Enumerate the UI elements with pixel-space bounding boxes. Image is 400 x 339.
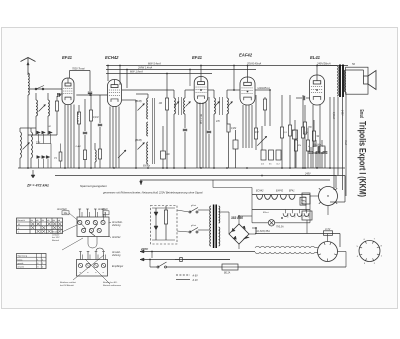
V1 top cap wire: [69, 71, 71, 79]
svg-text:gKast: gKast: [191, 224, 197, 227]
svg-text:heiss: heiss: [18, 259, 23, 261]
IF II trimmer left: [215, 102, 220, 107]
tube V3 EF41: [194, 77, 208, 104]
junction dots: [107, 65, 109, 67]
IF I trimmer left: [174, 102, 179, 107]
svg-text:Umschalt-: Umschalt-: [112, 221, 123, 224]
coupling caps row box2: [269, 150, 274, 160]
IF II top wires: [208, 89, 214, 91]
svg-text:Bereich: Bereich: [18, 219, 26, 222]
pinout socket circle: [359, 241, 380, 262]
V5 bypass box: [293, 130, 298, 139]
IF II core: [219, 97, 221, 115]
legend dashed 6V: [176, 274, 190, 276]
selector diode 1: [154, 212, 158, 216]
screen bypass wire: [84, 99, 86, 131]
svg-text:EF41: EF41: [192, 55, 203, 60]
mains line L: [140, 251, 255, 253]
svg-text:EF41: EF41: [289, 190, 295, 193]
svg-text:U 3V: U 3V: [325, 229, 331, 231]
speaker cable wavy: [255, 247, 315, 248]
svg-text:drehung: drehung: [112, 255, 121, 257]
V1 pin wires: [64, 105, 66, 169]
oscillator core: [151, 98, 153, 164]
V3 screen cap: [208, 97, 210, 130]
svg-text:6Rast: 6Rast: [263, 211, 269, 214]
lamp wires: [252, 222, 268, 224]
svg-text:6,3mA: 6,3mA: [332, 112, 335, 119]
AVC return wire: [99, 95, 101, 123]
6V supply line: [255, 233, 340, 235]
svg-text:220V: 220V: [140, 247, 149, 251]
oscillator trimmer C8: [138, 143, 145, 150]
coupling caps row box1: [261, 150, 266, 160]
IF II feed from rail: [233, 66, 235, 91]
svg-text:≙ 6V: ≙ 6V: [192, 273, 198, 277]
mains transformer core: [213, 205, 215, 249]
rectifier can circle: [319, 187, 338, 206]
chassis bus 3: [140, 179, 330, 181]
svg-text:Unichter: Unichter: [112, 236, 121, 239]
coupling caps row box3: [276, 150, 281, 160]
detector cap: [233, 140, 238, 149]
strip1 body: [77, 217, 109, 237]
svg-text:1M: 1M: [48, 126, 51, 128]
speaker wires: [346, 69, 364, 71]
speaker magnet: [364, 76, 369, 84]
IF transformer I left coil: [122, 89, 174, 91]
grid resistor R3 0,1M: [90, 95, 92, 110]
6V line bend: [339, 234, 341, 248]
AF resistor cluster r4: [302, 95, 304, 127]
switch K1: [189, 211, 191, 213]
switch link wire: [36, 143, 51, 145]
filter electrolytic 1: [310, 147, 312, 151]
IF II trimmer right: [228, 102, 233, 107]
heater frame wires: [251, 195, 253, 223]
filter bottom wire: [28, 134, 57, 136]
screen rail: [106, 69, 256, 71]
selector coil: [164, 210, 167, 224]
right frame wire: [344, 176, 346, 203]
svg-text:MW 5,4mA: MW 5,4mA: [148, 62, 161, 66]
svg-text:0,2M: 0,2M: [231, 128, 236, 130]
svg-text:B0,2A: B0,2A: [224, 272, 231, 275]
IF I core: [178, 97, 180, 115]
svg-text:gKast: gKast: [191, 204, 197, 207]
input filter top wire: [28, 88, 62, 90]
strip2 pins: [80, 252, 82, 260]
AF resistor cluster r3: [294, 140, 297, 151]
padder cap 10n: [162, 126, 164, 151]
table1 x marks: [31, 222, 34, 225]
svg-text:353 B60: 353 B60: [231, 216, 243, 220]
V4 side resistor: [264, 97, 266, 99]
antenna down wire: [27, 95, 29, 168]
second filter coil L3: [19, 128, 21, 132]
V5 cathode resistor: [304, 105, 306, 122]
IF I trimmer right: [186, 102, 191, 107]
selector diode 2: [154, 226, 158, 230]
right drop wire e: [345, 92, 347, 196]
screen feed wire: [189, 70, 191, 87]
mains switch: [157, 266, 159, 268]
tuning capacitor C9: [118, 150, 126, 158]
entbrummer: [180, 258, 183, 262]
AF resistor cluster r5: [306, 140, 309, 151]
V2 rail drops: [107, 66, 109, 82]
electrolytic wires: [315, 153, 317, 168]
svg-text:Spannung: Spannung: [18, 256, 28, 258]
svg-text:≈220/28mA: ≈220/28mA: [257, 87, 270, 90]
svg-text:0,1µ: 0,1µ: [36, 141, 41, 143]
svg-text:245V: 245V: [340, 109, 343, 116]
switch K2: [189, 231, 191, 233]
volume pot: [261, 126, 263, 150]
heater cap box 50n: [300, 197, 306, 205]
svg-text:0,4M: 0,4M: [76, 145, 81, 148]
dropper resistor: [312, 131, 315, 141]
svg-text:EAF42: EAF42: [276, 190, 284, 193]
speaker circle wires: [315, 247, 318, 249]
svg-text:Brücke bei 6V-: Brücke bei 6V-: [103, 282, 118, 284]
svg-text:70V/0,45mA: 70V/0,45mA: [247, 62, 262, 66]
svg-text:7000 Tonat: 7000 Tonat: [72, 68, 85, 71]
mains transformer secondary upper: [219, 206, 220, 223]
voltage table 2: [17, 254, 47, 269]
svg-text:B0,2 1,4A: B0,2 1,4A: [76, 112, 79, 123]
V3 pin wires: [196, 103, 198, 169]
electrolytic block 50u: [302, 193, 310, 204]
svg-text:60/50p: 60/50p: [143, 166, 151, 168]
filter electrolytic 3: [324, 147, 326, 151]
IF II bottom resistor 0,2M: [226, 114, 228, 124]
can wires: [310, 195, 319, 197]
svg-text:Betrieb: Betrieb: [52, 239, 60, 242]
voltage selector dashed box: [151, 206, 178, 245]
AVC rail: [106, 73, 212, 75]
fuse out wire: [238, 266, 346, 268]
tube V2 ECH42: [108, 80, 122, 107]
chassis bus 2: [55, 175, 345, 177]
strip1 below pins: [87, 237, 89, 245]
signal wire V1 to V2: [76, 94, 107, 96]
right drop wire c: [337, 97, 339, 176]
output transformer core: [339, 65, 341, 98]
strip1 right callout lines: [109, 222, 112, 225]
switch resistor: [59, 152, 62, 161]
svg-text:245V/36mA: 245V/36mA: [316, 62, 331, 66]
mains transformer secondary lower: [219, 227, 220, 246]
IF transformer I right coil: [184, 98, 185, 114]
svg-text:verlötet: verlötet: [52, 233, 60, 236]
svg-text:ZF = 472 kHz: ZF = 472 kHz: [26, 184, 49, 188]
oscillator wire frame: [122, 99, 136, 101]
electrolytic pair 50uF: [313, 146, 319, 153]
speaker circle rear: [318, 242, 338, 262]
oscillator coil L6: [147, 122, 148, 136]
switch wires: [177, 210, 189, 212]
svg-text:≈6,3V/0,35A: ≈6,3V/0,35A: [256, 230, 270, 233]
AF resistor cluster r2: [289, 95, 291, 125]
svg-text:(m): (m): [54, 158, 57, 160]
antenna coil: [28, 73, 29, 95]
svg-text:≙ 2V: ≙ 2V: [192, 278, 198, 282]
svg-text:ECH42: ECH42: [105, 55, 119, 60]
V5 pin wires: [312, 105, 314, 168]
svg-text:Spannungsangaben: Spannungsangaben: [80, 184, 107, 188]
svg-text:Brücken verlötet: Brücken verlötet: [60, 281, 76, 284]
right drop wire b: [333, 97, 335, 190]
svg-text:bei 12V: bei 12V: [52, 237, 60, 239]
svg-text:einzeln: einzeln: [18, 267, 25, 269]
osc top wire: [147, 94, 149, 98]
V1 cathode resistor: [77, 112, 80, 124]
input coil L1: [35, 93, 37, 100]
input coil L2: [47, 93, 49, 100]
V4 pin wires: [242, 105, 244, 148]
svg-text:2MW 1,4mA: 2MW 1,4mA: [137, 66, 153, 70]
heater chain row 1: [252, 194, 310, 196]
grid feed wire: [57, 93, 63, 95]
band switch S1: [35, 88, 37, 90]
dial lamp: [268, 220, 274, 226]
bridge rectifier: [229, 224, 249, 244]
tube V5 EL41: [310, 75, 325, 105]
svg-text:Brücke: Brücke: [52, 232, 60, 234]
V3 anode wire: [200, 66, 202, 77]
strip2 contacts: [78, 263, 82, 267]
mains line N: [140, 259, 230, 261]
svg-text:1M: 1M: [159, 102, 162, 105]
ground mark at bus: [140, 181, 143, 185]
speaker circle right wire: [338, 251, 347, 253]
svg-text:Emud: Emud: [358, 110, 364, 119]
second filter coil L4: [30, 128, 32, 132]
V4 diode out wire: [255, 89, 270, 91]
svg-text:4mA: 4mA: [344, 140, 347, 145]
mains plug arrows: [140, 250, 144, 253]
svg-text:gemitt.: gemitt.: [18, 262, 25, 265]
svg-text:245V: 245V: [304, 172, 311, 175]
bridge wires: [219, 211, 229, 213]
svg-text:EF41: EF41: [62, 55, 73, 60]
speaker frame box: [346, 67, 368, 94]
band switch contacts upper row: [37, 131, 41, 134]
svg-text:Tripolis Export I (KKM): Tripolis Export I (KKM): [357, 121, 368, 197]
output transformer primary: [337, 66, 338, 96]
ground lug: [32, 170, 34, 175]
dropper U3V: [324, 231, 333, 236]
V5 anode wire: [316, 66, 318, 76]
V5 grid coupling: [296, 97, 302, 99]
svg-text:M: M: [18, 224, 20, 226]
svg-text:170: 170: [308, 126, 313, 129]
strip2 body: [77, 260, 108, 277]
tube V4 EAF42: [240, 77, 255, 105]
svg-text:0,1M: 0,1M: [93, 116, 98, 119]
grid input cap: [57, 93, 59, 97]
tube V1 EF41: [62, 78, 74, 105]
strip2 bridge arc: [96, 248, 104, 251]
osc grid resistor 1M: [166, 74, 168, 99]
svg-text:gemessen mit Röhrenvoltmeter,: gemessen mit Röhrenvoltmeter, Netzanschl…: [103, 191, 203, 195]
chassis bus 1: [18, 167, 345, 169]
detector resistor: [255, 95, 257, 128]
svg-text:ECH42: ECH42: [256, 190, 264, 193]
svg-text:MW 1,8mA: MW 1,8mA: [130, 70, 143, 74]
svg-text:Umstell-: Umstell-: [112, 251, 121, 254]
B+ supply rail: [106, 65, 348, 67]
IF I bottom cap: [184, 114, 186, 128]
heater link wire: [212, 180, 214, 188]
strip1 upper contacts: [78, 220, 82, 224]
245V feed wire: [290, 175, 336, 177]
svg-text:EL41: EL41: [310, 55, 321, 60]
svg-text:1M: 1M: [255, 131, 258, 134]
right drop wire d: [342, 97, 344, 190]
electrolytic block 25u: [302, 211, 312, 220]
svg-text:drehung: drehung: [112, 225, 121, 227]
selector wires: [152, 207, 175, 209]
IF transformer II left coil: [213, 96, 215, 98]
strip1 jumpers: [82, 224, 87, 229]
svg-text:bei 6V-Betrieb: bei 6V-Betrieb: [60, 284, 75, 287]
strip1 lower contacts: [82, 228, 86, 232]
trimmer C1: [39, 105, 46, 112]
strip1 callout lines: [69, 213, 79, 221]
block wires: [305, 204, 307, 211]
transformer top wires: [317, 65, 337, 67]
legend solid 2V: [176, 279, 190, 281]
mains transformer primary: [210, 206, 211, 246]
V4 grid wire: [234, 89, 240, 91]
oscillator trimmer C7: [138, 104, 145, 111]
fuse: [222, 264, 238, 270]
band switch contacts lower row: [37, 156, 41, 159]
svg-text:(5645): (5645): [135, 100, 142, 103]
svg-text:(5645): (5645): [135, 139, 142, 142]
filter link wire: [20, 127, 36, 129]
oscillator coil L7: [147, 142, 148, 164]
filter electrolytic 2: [317, 147, 319, 151]
svg-text:7V0,3A: 7V0,3A: [276, 225, 284, 228]
decoupling coil: [95, 150, 96, 162]
right drop wire a: [329, 97, 331, 168]
trimmer C2: [23, 143, 30, 150]
strip2 callout lines: [73, 255, 104, 280]
strip1 pins: [79, 209, 81, 217]
svg-text:Empfänger: Empfänger: [112, 266, 123, 268]
voltage table 1: [17, 218, 63, 234]
oscillator coil L5: [147, 98, 148, 119]
V2 pin wires: [109, 107, 111, 169]
AF resistor cluster r1: [281, 95, 283, 127]
svg-text:Betrieb auftrennen: Betrieb auftrennen: [103, 284, 122, 287]
IF transformer II right coil: [226, 96, 228, 98]
heater chain row 2: [252, 209, 310, 211]
output transformer secondary: [344, 70, 345, 92]
V4 anode wire: [247, 66, 249, 78]
padding resistor: [56, 96, 58, 101]
coupling capacitor C5: [88, 91, 92, 93]
speaker cone: [368, 71, 376, 90]
svg-text:EAF42: EAF42: [239, 53, 253, 58]
antenna: [21, 58, 36, 62]
